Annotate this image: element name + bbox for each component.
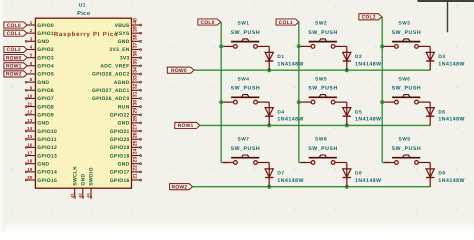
svg-text:SW1: SW1 — [238, 21, 250, 27]
svg-text:SW_PUSH: SW_PUSH — [231, 146, 261, 152]
svg-text:GPIO22: GPIO22 — [110, 112, 130, 118]
svg-text:AGND: AGND — [114, 80, 130, 86]
svg-text:SW_PUSH: SW_PUSH — [231, 30, 261, 36]
svg-text:ADC_VREF: ADC_VREF — [100, 64, 129, 70]
svg-text:24: 24 — [133, 149, 139, 155]
svg-text:37: 37 — [133, 42, 139, 48]
svg-text:SW_PUSH: SW_PUSH — [392, 146, 422, 152]
svg-text:SW_PUSH: SW_PUSH — [308, 86, 338, 92]
svg-text:34: 34 — [133, 67, 139, 73]
svg-text:33: 33 — [133, 75, 139, 81]
svg-text:SW7: SW7 — [238, 137, 250, 143]
svg-text:GND: GND — [118, 39, 130, 45]
svg-text:28: 28 — [133, 116, 139, 122]
svg-text:GPIO1: GPIO1 — [37, 31, 54, 37]
svg-text:D4: D4 — [277, 109, 284, 115]
svg-text:GND: GND — [81, 174, 87, 186]
svg-text:17: 17 — [27, 151, 32, 156]
svg-text:GPIO16: GPIO16 — [110, 178, 130, 184]
svg-text:SW3: SW3 — [399, 21, 411, 27]
svg-text:29: 29 — [133, 108, 139, 114]
svg-text:14: 14 — [27, 126, 32, 131]
svg-text:39: 39 — [133, 26, 139, 32]
svg-text:SWDIO: SWDIO — [89, 167, 95, 185]
svg-text:ROW1: ROW1 — [178, 123, 194, 129]
svg-text:D6: D6 — [438, 109, 445, 115]
svg-text:SW_PUSH: SW_PUSH — [392, 86, 422, 92]
svg-text:SWCLK: SWCLK — [72, 166, 78, 186]
svg-text:1N4148W: 1N4148W — [355, 178, 382, 184]
svg-text:23: 23 — [133, 157, 139, 163]
svg-text:38: 38 — [133, 34, 139, 40]
svg-text:COL2: COL2 — [362, 15, 376, 21]
svg-text:35: 35 — [133, 59, 139, 65]
svg-text:COL1: COL1 — [279, 20, 293, 26]
svg-text:13: 13 — [27, 118, 32, 123]
svg-text:GPIO18: GPIO18 — [110, 153, 130, 159]
svg-text:COL2: COL2 — [7, 47, 21, 53]
svg-text:ROW2: ROW2 — [171, 184, 187, 190]
svg-text:GND: GND — [37, 121, 49, 127]
svg-text:GPIO17: GPIO17 — [110, 170, 130, 176]
svg-text:40: 40 — [133, 18, 139, 24]
svg-text:1N4148W: 1N4148W — [355, 117, 382, 123]
svg-text:GPIO5: GPIO5 — [37, 72, 54, 78]
svg-text:GND: GND — [37, 161, 49, 167]
svg-text:SW9: SW9 — [399, 137, 411, 143]
svg-text:GPIO9: GPIO9 — [37, 112, 54, 118]
svg-text:ROW0: ROW0 — [6, 55, 22, 61]
svg-text:GPIO19: GPIO19 — [110, 145, 130, 151]
svg-text:GPIO28_ADC2: GPIO28_ADC2 — [92, 72, 130, 78]
svg-text:GPIO10: GPIO10 — [37, 129, 57, 135]
svg-text:3V3: 3V3 — [120, 55, 130, 61]
svg-text:GPIO6: GPIO6 — [37, 88, 54, 94]
svg-text:GPIO20: GPIO20 — [110, 137, 130, 143]
svg-text:30: 30 — [133, 100, 139, 106]
svg-text:18: 18 — [27, 159, 32, 164]
svg-text:36: 36 — [133, 51, 139, 57]
svg-text:ROW2: ROW2 — [6, 72, 22, 78]
svg-text:1N4148W: 1N4148W — [438, 61, 465, 67]
svg-text:D8: D8 — [355, 171, 362, 177]
svg-text:U1: U1 — [79, 2, 86, 8]
svg-text:GPIO26_ADC0: GPIO26_ADC0 — [92, 96, 130, 102]
svg-text:COL1: COL1 — [7, 31, 21, 37]
svg-text:GPIO21: GPIO21 — [110, 129, 130, 135]
svg-text:1N4148W: 1N4148W — [277, 117, 304, 123]
svg-text:GPIO2: GPIO2 — [37, 47, 54, 53]
svg-text:RUN: RUN — [118, 104, 130, 110]
svg-text:GND: GND — [118, 121, 130, 127]
svg-text:D5: D5 — [355, 109, 362, 115]
svg-text:31: 31 — [133, 91, 139, 97]
svg-text:1N4148W: 1N4148W — [438, 117, 465, 123]
svg-text:SW6: SW6 — [399, 76, 411, 82]
svg-text:GPIO14: GPIO14 — [37, 170, 57, 176]
svg-text:D2: D2 — [355, 54, 362, 60]
svg-text:15: 15 — [27, 134, 32, 139]
svg-text:GPIO27_ADC1: GPIO27_ADC1 — [92, 88, 130, 94]
svg-text:SW5: SW5 — [315, 76, 327, 82]
svg-text:D7: D7 — [277, 171, 284, 177]
svg-text:SW4: SW4 — [238, 76, 250, 82]
svg-text:GPIO3: GPIO3 — [37, 55, 54, 61]
svg-text:ROW1: ROW1 — [6, 64, 22, 70]
svg-text:12: 12 — [27, 110, 32, 115]
svg-text:ROW0: ROW0 — [171, 68, 187, 74]
svg-text:D1: D1 — [277, 54, 284, 60]
svg-text:10: 10 — [27, 93, 32, 98]
svg-text:22: 22 — [133, 165, 139, 171]
svg-text:26: 26 — [133, 132, 139, 138]
svg-text:GPIO15: GPIO15 — [37, 178, 57, 184]
svg-text:Pico: Pico — [77, 10, 91, 17]
svg-text:21: 21 — [133, 173, 139, 179]
svg-text:SW_PUSH: SW_PUSH — [392, 30, 422, 36]
svg-text:SW2: SW2 — [315, 21, 327, 27]
svg-text:GPIO12: GPIO12 — [37, 145, 57, 151]
svg-text:COL0: COL0 — [200, 20, 214, 26]
svg-text:SW_PUSH: SW_PUSH — [231, 86, 261, 92]
svg-text:GPIO11: GPIO11 — [37, 137, 56, 143]
svg-text:GPIO8: GPIO8 — [37, 104, 54, 110]
svg-text:1N4148W: 1N4148W — [277, 178, 304, 184]
svg-text:GND: GND — [118, 161, 130, 167]
svg-text:COL0: COL0 — [7, 23, 21, 29]
svg-text:GND: GND — [37, 39, 49, 45]
svg-text:16: 16 — [27, 142, 32, 147]
svg-text:GND: GND — [37, 80, 49, 86]
svg-text:20: 20 — [27, 175, 32, 180]
svg-text:1N4148W: 1N4148W — [438, 178, 465, 184]
svg-text:GPIO7: GPIO7 — [37, 96, 54, 102]
svg-text:1N4148W: 1N4148W — [355, 61, 382, 67]
svg-text:SW_PUSH: SW_PUSH — [308, 30, 338, 36]
svg-text:19: 19 — [27, 167, 32, 172]
svg-text:1N4148W: 1N4148W — [277, 61, 304, 67]
svg-text:3V3_EN: 3V3_EN — [109, 47, 129, 53]
svg-text:GPIO0: GPIO0 — [37, 23, 54, 29]
svg-text:11: 11 — [28, 102, 33, 107]
svg-text:SW8: SW8 — [315, 137, 327, 143]
svg-text:D9: D9 — [438, 171, 445, 177]
svg-text:SW_PUSH: SW_PUSH — [308, 146, 338, 152]
svg-text:25: 25 — [133, 140, 139, 146]
svg-text:Raspberry PI Pico: Raspberry PI Pico — [54, 31, 119, 38]
svg-text:GPIO4: GPIO4 — [37, 64, 54, 70]
svg-text:27: 27 — [133, 124, 139, 130]
svg-text:32: 32 — [133, 83, 139, 89]
svg-text:D3: D3 — [438, 54, 445, 60]
svg-text:VBUS: VBUS — [115, 23, 130, 29]
svg-text:GPIO13: GPIO13 — [37, 153, 57, 159]
